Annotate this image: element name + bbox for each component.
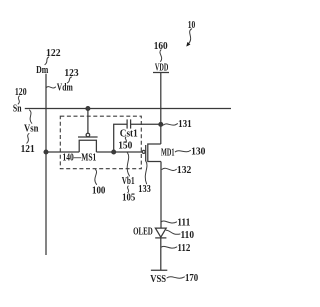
- leader squiggle Sn line to Vsn: [30, 110, 32, 123]
- leader squiggle Dm line to Vdm: [46, 87, 55, 88]
- svg-text:Dm: Dm: [36, 65, 49, 76]
- svg-text:120: 120: [15, 87, 27, 98]
- svg-text:Vdm: Vdm: [57, 83, 73, 94]
- svg-text:10: 10: [188, 20, 196, 31]
- svg-text:160: 160: [154, 41, 168, 52]
- leader squiggle 120 to Sn: [18, 96, 19, 104]
- transistor MS1 gate bar: [78, 136, 98, 138]
- transistor MD1 channel: [148, 144, 161, 162]
- wire VDD rail: [160, 73, 162, 145]
- leader squiggle 110: [166, 230, 180, 234]
- svg-text:112: 112: [177, 243, 190, 254]
- svg-text:122: 122: [46, 48, 61, 59]
- svg-text:150: 150: [118, 140, 132, 151]
- leader squiggle 123 to Vdm: [67, 77, 71, 83]
- svg-text:132: 132: [177, 165, 191, 176]
- svg-text:Vb1: Vb1: [122, 176, 135, 187]
- node junction storage cap tap: [112, 150, 116, 154]
- diode OLED anode triangle: [155, 228, 166, 237]
- leader squiggle 160 to VDD: [160, 50, 162, 62]
- svg-text:VSS: VSS: [150, 274, 166, 285]
- leader squiggle 131: [164, 124, 178, 125]
- leader squiggle 10 arrow: [189, 29, 192, 44]
- wire cap right lead: [131, 123, 161, 125]
- diode OLED cathode bar: [155, 237, 166, 239]
- leader squiggle 112: [161, 246, 177, 248]
- wire MS1 gate to Sn: [87, 109, 89, 134]
- leader squiggle Vb1 to 105: [127, 186, 128, 193]
- leader squiggle Vsn to 121: [27, 134, 29, 144]
- capacitor Cst1 right plate: [130, 119, 132, 128]
- leader squiggle Cst1 to 150: [125, 137, 126, 142]
- node junction 131 on VDD rail: [159, 123, 163, 127]
- leader squiggle Vb1 to gate wire: [127, 153, 129, 176]
- svg-text:VDD: VDD: [155, 63, 168, 74]
- leader squiggle MD1 to 130: [175, 150, 190, 151]
- capacitor Cst1 left plate: [126, 119, 128, 128]
- leader squiggle 122 to Dm: [45, 57, 49, 65]
- wire scan line Sn: [25, 108, 231, 110]
- wire MD1 drain to OLED: [160, 162, 162, 229]
- svg-text:133: 133: [138, 184, 151, 195]
- svg-text:MD1: MD1: [161, 148, 175, 159]
- leader squiggle 132: [162, 168, 176, 170]
- svg-text:105: 105: [122, 192, 135, 203]
- leader squiggle VSS to 170: [167, 277, 184, 278]
- wire OLED to VSS: [160, 238, 162, 270]
- svg-text:100: 100: [92, 185, 105, 196]
- wire cap left lead: [114, 124, 127, 152]
- svg-text:Sn: Sn: [13, 103, 22, 114]
- wire MS1 source: [46, 151, 79, 153]
- svg-text:130: 130: [191, 146, 205, 157]
- node junction gate on Sn: [86, 107, 90, 111]
- svg-text:140—MS1: 140—MS1: [63, 152, 97, 163]
- svg-text:OLED: OLED: [133, 227, 153, 238]
- transistor MD1 gate bubble: [142, 150, 145, 153]
- svg-text:123: 123: [64, 68, 78, 79]
- svg-text:170: 170: [185, 273, 198, 284]
- transistor MS1 channel: [79, 140, 96, 152]
- node junction Dm / MS1 source: [44, 150, 48, 154]
- svg-text:131: 131: [178, 119, 192, 130]
- power terminal VSS bar: [151, 269, 167, 271]
- svg-text:111: 111: [177, 217, 190, 228]
- leader squiggle 133 to MD1 gate: [145, 161, 147, 184]
- leader squiggle dashed box to 100: [95, 170, 97, 185]
- leader squiggle 111: [161, 221, 177, 223]
- svg-text:Cst1: Cst1: [120, 128, 138, 139]
- wire data line Dm: [45, 74, 47, 255]
- transistor MS1 gate bubble: [86, 133, 90, 137]
- pixel boundary dashed box 100: [60, 116, 141, 169]
- svg-text:121: 121: [21, 144, 35, 155]
- wire MS1 drain to MD1 gate: [96, 151, 142, 153]
- transistor MD1 gate bar: [145, 145, 147, 161]
- arrowhead of 10 leader: [187, 43, 190, 46]
- svg-text:110: 110: [181, 230, 195, 241]
- power terminal VDD bar: [153, 72, 169, 74]
- svg-text:Vsn: Vsn: [24, 123, 39, 134]
